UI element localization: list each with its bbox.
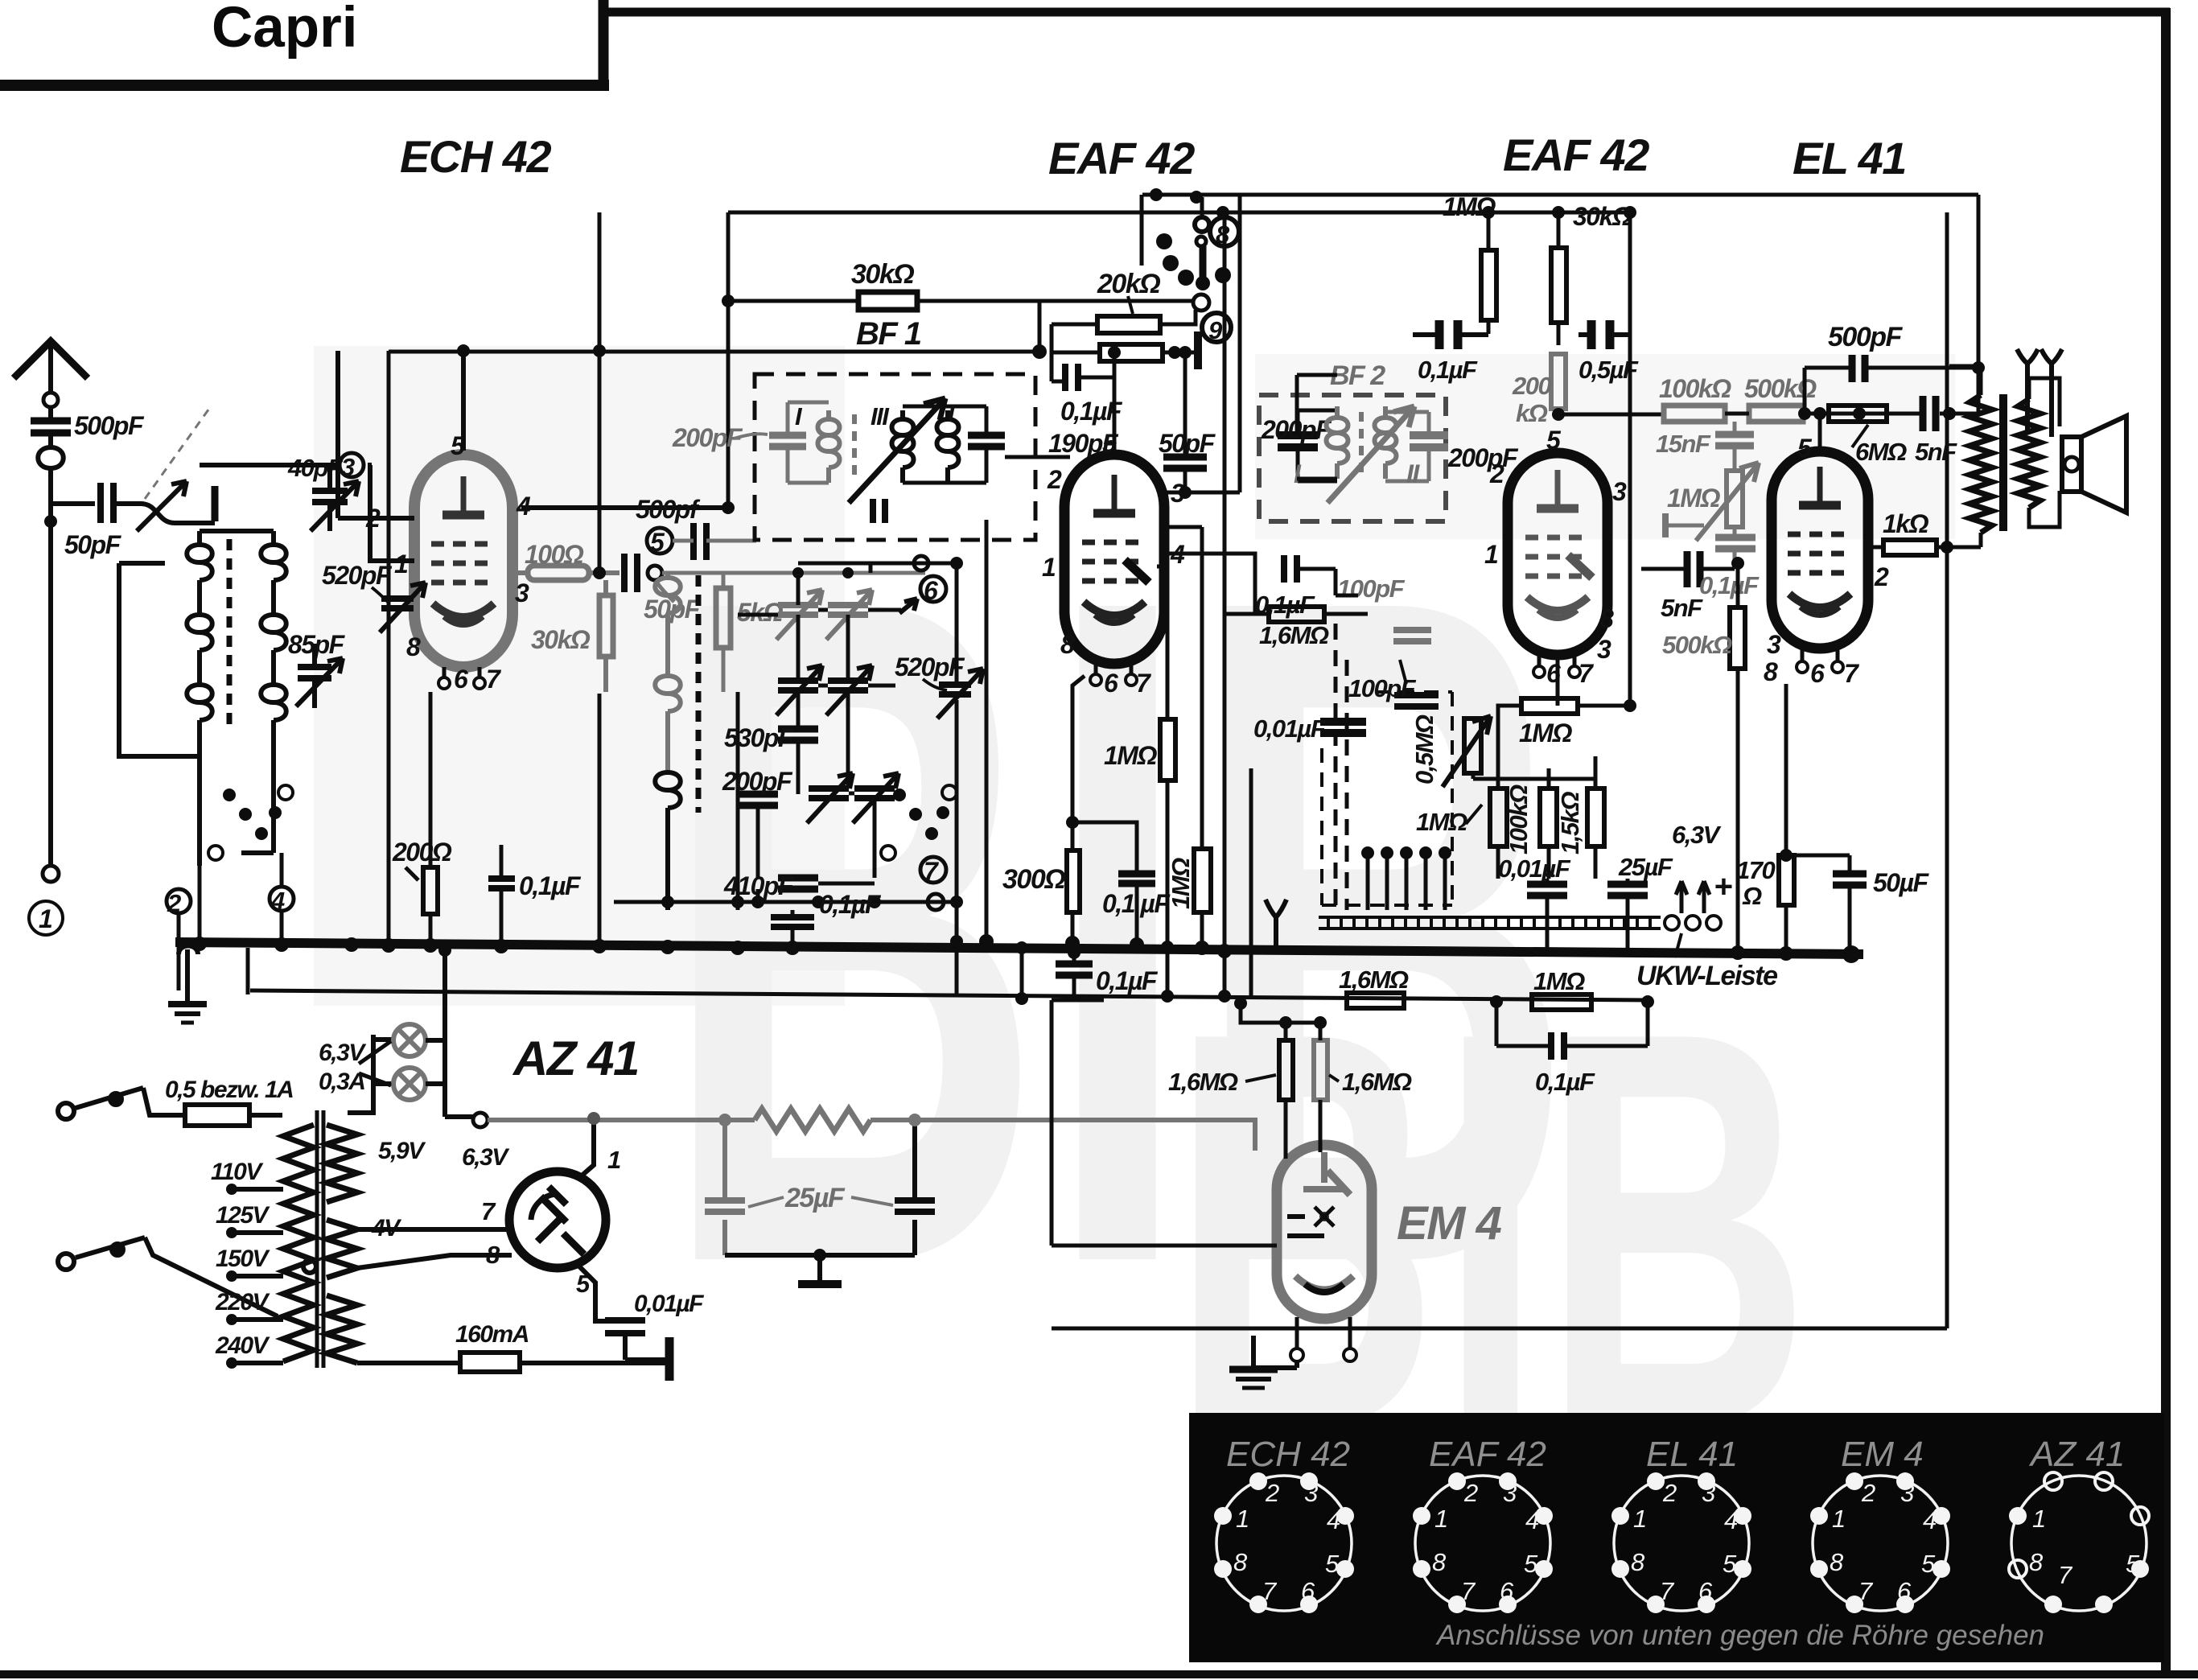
capacitor 15nF bbox=[1715, 434, 1754, 446]
svg-text:8: 8 bbox=[1599, 604, 1614, 633]
resistor 1M grid em4 bbox=[1194, 849, 1211, 912]
resistor 500k grid bbox=[1730, 607, 1745, 669]
svg-text:3: 3 bbox=[1612, 477, 1627, 506]
BF2 secondary cap bbox=[1410, 435, 1448, 447]
long top line lower bbox=[728, 195, 1630, 266]
fuse 160mA bbox=[460, 1353, 520, 1372]
capacitor 50pF grid2 bbox=[624, 554, 637, 592]
resistor 30k screen bbox=[1551, 248, 1566, 323]
socket panel background bbox=[1189, 1413, 2164, 1662]
field resistor zigzag bbox=[755, 1109, 871, 1131]
svg-text:kΩ: kΩ bbox=[1516, 399, 1548, 427]
voltage tap 125V bbox=[232, 1230, 283, 1235]
AZ41 pin1 wire bbox=[581, 1118, 594, 1176]
trimmer row1 a bbox=[778, 605, 818, 615]
potentiometer 1M volume bbox=[1727, 471, 1743, 527]
BF1 tuning arrow bbox=[849, 398, 945, 503]
title box bottom line bbox=[0, 80, 609, 91]
chassis ground hook bbox=[179, 946, 198, 1003]
vertical feed line x745 bbox=[598, 212, 602, 573]
wire pin2 ECH42 bbox=[338, 351, 414, 518]
bus2 left end vertical bbox=[246, 948, 250, 994]
wire BF1 secondary to EAF42 grid bbox=[1005, 455, 1070, 459]
capacitor 0,1uF cathode bbox=[1072, 822, 1137, 945]
capacitor 0,1uF det bbox=[1065, 364, 1078, 391]
svg-text:EM 4: EM 4 bbox=[1397, 1197, 1502, 1250]
coupling capacitor 50pF bbox=[51, 501, 95, 506]
BF1 cap primary gray bbox=[769, 435, 806, 447]
BF1 bottom cap bbox=[873, 499, 885, 523]
svg-text:0,1 µF: 0,1 µF bbox=[1102, 889, 1171, 918]
svg-text:1,6MΩ: 1,6MΩ bbox=[1339, 966, 1409, 994]
svg-text:5nF: 5nF bbox=[1915, 438, 1957, 466]
svg-text:6: 6 bbox=[924, 576, 938, 605]
resistor 1,5k vertical bbox=[1540, 789, 1557, 846]
wire bus1 to bus2 x1270 bbox=[1020, 948, 1024, 999]
BF2 primary cap bbox=[1278, 435, 1318, 447]
resistor 1k bbox=[1883, 540, 1937, 555]
svg-text:6: 6 bbox=[454, 665, 468, 694]
antenna trimmer bbox=[113, 504, 175, 523]
terminal 1 bbox=[43, 866, 59, 882]
pilot lamp 1 bbox=[393, 1024, 426, 1056]
tube AZ41 rectifier bbox=[509, 1171, 606, 1268]
voltage tap 240V bbox=[232, 1361, 283, 1365]
svg-text:4: 4 bbox=[1327, 1506, 1340, 1534]
svg-text:0,01µF: 0,01µF bbox=[1253, 714, 1327, 743]
svg-text:520pF: 520pF bbox=[322, 561, 393, 590]
svg-text:1,5kΩ: 1,5kΩ bbox=[1556, 792, 1584, 854]
EAF42 no1 anode load wire bbox=[1113, 352, 1117, 426]
heater arrows 6,3V bbox=[1676, 881, 1710, 913]
svg-text:160mA: 160mA bbox=[455, 1321, 529, 1348]
svg-text:III: III bbox=[871, 402, 890, 430]
grid wire to ECH42 with terminal 3 bbox=[200, 463, 331, 467]
capacitor 0,01uF out bbox=[1527, 884, 1567, 896]
dial lamp symbols bbox=[2017, 349, 2038, 434]
resistor 1,6M vertical b bbox=[1314, 1040, 1327, 1100]
mains switch lower bbox=[58, 1237, 316, 1316]
band switch contacts left bbox=[223, 789, 282, 840]
capacitor below pot bbox=[1715, 537, 1756, 549]
svg-text:1MΩ: 1MΩ bbox=[1104, 741, 1157, 770]
svg-text:1MΩ: 1MΩ bbox=[1667, 484, 1720, 513]
tube EL41 bbox=[1772, 451, 1868, 673]
resistor 1,6M vertical a bbox=[1279, 1040, 1293, 1100]
capacitor 0,01uF ratio bbox=[1320, 722, 1366, 733]
svg-text:6: 6 bbox=[1301, 1577, 1315, 1605]
svg-text:100kΩ: 100kΩ bbox=[1504, 784, 1533, 854]
svg-text:300Ω: 300Ω bbox=[1002, 864, 1065, 895]
BF2 primary coil bbox=[1327, 406, 1348, 479]
EAF42no2 grid cap 100pF gray bbox=[1393, 630, 1431, 641]
resistor 1M screen top bbox=[1481, 250, 1496, 320]
wire from bus2 down to EM4 bbox=[1052, 1000, 1277, 1246]
svg-text:1MΩ: 1MΩ bbox=[1167, 858, 1195, 909]
electrolytic 25uF right bbox=[725, 1120, 915, 1255]
terminal 2 bbox=[167, 889, 191, 913]
capacitor 0,1uF osc left bbox=[488, 879, 515, 888]
dashed AFC line 2 bbox=[1345, 660, 1349, 910]
svg-text:50µF: 50µF bbox=[1873, 868, 1930, 897]
vertical wire x1555 bbox=[1249, 768, 1253, 996]
trimmer row3 b bbox=[854, 789, 895, 798]
resistor anode vertical bbox=[1587, 789, 1604, 846]
wire heater to lamps bbox=[348, 1035, 393, 1113]
svg-text:200Ω: 200Ω bbox=[392, 838, 452, 867]
svg-text:500kΩ: 500kΩ bbox=[1662, 631, 1732, 659]
osc vertical x917 bbox=[736, 692, 740, 910]
svg-text:1,6MΩ: 1,6MΩ bbox=[1342, 1068, 1412, 1096]
svg-text:30kΩ: 30kΩ bbox=[1573, 202, 1632, 231]
vertical line x1520 bbox=[1164, 195, 1240, 996]
svg-text:ECH 42: ECH 42 bbox=[1226, 1435, 1350, 1474]
svg-text:AZ 41: AZ 41 bbox=[2028, 1435, 2125, 1474]
svg-text:1: 1 bbox=[39, 904, 52, 933]
watermark BTB center bbox=[660, 399, 1575, 1460]
EL41 pin numbers bbox=[1764, 434, 1889, 688]
vertical feed line x905 bbox=[726, 212, 731, 508]
svg-text:6: 6 bbox=[1810, 659, 1825, 688]
terminal 4 bbox=[270, 887, 294, 911]
svg-text:EAF 42: EAF 42 bbox=[1429, 1435, 1546, 1474]
output transformer core bbox=[1999, 394, 2007, 531]
speaker bbox=[2062, 437, 2081, 492]
resistor 30k gray vertical bbox=[599, 595, 613, 657]
svg-text:200: 200 bbox=[1512, 372, 1551, 400]
svg-text:0,5MΩ: 0,5MΩ bbox=[1410, 714, 1439, 784]
band switch contacts right bbox=[893, 789, 949, 840]
svg-text:EM 4: EM 4 bbox=[1841, 1435, 1924, 1474]
svg-text:4: 4 bbox=[270, 887, 285, 915]
transformer primary winding bbox=[283, 1125, 314, 1361]
IF transformer BF1 dashed box bbox=[755, 374, 1035, 540]
wires around detector resistors bbox=[1473, 756, 1595, 879]
UKW-Leiste connector strip bbox=[1319, 917, 1661, 929]
EAF42 no.1 pin numbers bbox=[1042, 429, 1185, 698]
BF2 tuning arrow bbox=[1327, 406, 1414, 503]
resistor 200R vertical bbox=[423, 867, 438, 914]
svg-text:5: 5 bbox=[1546, 426, 1562, 455]
svg-text:9: 9 bbox=[1208, 316, 1223, 344]
terminal 6 bbox=[920, 576, 946, 602]
svg-text:125V: 125V bbox=[216, 1202, 271, 1229]
tube EAF42 no.2 bbox=[1508, 453, 1607, 677]
frame top edge bbox=[607, 8, 2170, 17]
resistor 170R bbox=[1779, 855, 1794, 905]
svg-text:20kΩ: 20kΩ bbox=[1097, 269, 1160, 299]
capacitor 0,1uF lower loop bbox=[1496, 1002, 1648, 1046]
heater line gray with resistor bbox=[488, 1118, 755, 1122]
output transformer secondary bbox=[2018, 399, 2040, 508]
svg-text:5,9V: 5,9V bbox=[378, 1138, 426, 1164]
terminal 5 circled bbox=[647, 528, 673, 554]
ECH42 pin numbers bbox=[365, 431, 531, 694]
svg-text:500pf: 500pf bbox=[636, 495, 701, 524]
long top line upper bbox=[1142, 193, 1978, 197]
svg-text:150V: 150V bbox=[216, 1246, 271, 1272]
top line of ECH42 stage bbox=[389, 350, 1039, 354]
transformer winding 4V bbox=[327, 1220, 357, 1278]
trimmer row2 a bbox=[778, 681, 818, 690]
oscillator coil chain bbox=[655, 573, 681, 772]
svg-text:1MΩ: 1MΩ bbox=[1416, 808, 1467, 836]
svg-text:1: 1 bbox=[1236, 1505, 1249, 1533]
resistor 5k gray bbox=[716, 588, 731, 648]
svg-text:7: 7 bbox=[1262, 1577, 1278, 1605]
svg-text:8: 8 bbox=[406, 632, 421, 661]
svg-text:6: 6 bbox=[1104, 669, 1118, 698]
terminal 8 assembly bbox=[1200, 197, 1204, 218]
svg-text:0,1µF: 0,1µF bbox=[519, 871, 582, 900]
pilot lamp 2 bbox=[393, 1068, 426, 1100]
svg-text:5nF: 5nF bbox=[1661, 594, 1703, 622]
watermark BTB bottom right bbox=[1171, 914, 1811, 1544]
svg-text:5: 5 bbox=[650, 528, 665, 557]
svg-text:0,1µF: 0,1µF bbox=[1096, 966, 1159, 995]
voltage tap 220V bbox=[232, 1317, 283, 1322]
heater terminal 6,3V bbox=[473, 1113, 488, 1127]
svg-text:50pF: 50pF bbox=[64, 530, 122, 559]
osc coil core dashes bbox=[696, 575, 702, 813]
frame bottom edge bbox=[0, 1670, 2198, 1678]
svg-text:100Ω: 100Ω bbox=[525, 540, 584, 569]
capacitor 0,1uF between buses bbox=[1056, 964, 1093, 975]
terminal 7 bbox=[920, 857, 946, 883]
svg-text:0,01µF: 0,01µF bbox=[634, 1291, 704, 1317]
svg-text:8: 8 bbox=[2029, 1548, 2044, 1576]
trimmer row2 b bbox=[828, 681, 868, 690]
svg-text:0,1µF: 0,1µF bbox=[1535, 1068, 1595, 1096]
svg-text:1: 1 bbox=[394, 550, 408, 579]
svg-text:BF 1: BF 1 bbox=[856, 316, 921, 352]
capacitor 500pF osc bbox=[694, 523, 706, 560]
resistor 1,6M lower bbox=[1347, 993, 1404, 1008]
ground at 25uF bbox=[817, 1255, 822, 1281]
vertical rail x2459 bbox=[1977, 195, 1981, 414]
socket panel tube names bbox=[1226, 1435, 2125, 1474]
antenna capacitor 500pF bbox=[48, 407, 53, 418]
tube EAF42 no.1 bbox=[1064, 455, 1164, 686]
svg-text:Ω: Ω bbox=[1742, 882, 1762, 910]
BF2 secondary coil bbox=[1375, 406, 1397, 479]
capacitor 100pF det2 bbox=[1394, 695, 1439, 706]
voltage tap 150V bbox=[232, 1274, 283, 1279]
resistor 1M eaf2 bbox=[1521, 698, 1578, 714]
AZ41 pin5 wire bbox=[578, 1265, 605, 1321]
EM4 heater fork bbox=[1266, 900, 1286, 946]
BF1 core dashes bbox=[852, 414, 857, 479]
svg-text:+: + bbox=[1714, 869, 1732, 904]
svg-text:0,3A: 0,3A bbox=[319, 1069, 364, 1095]
svg-text:15nF: 15nF bbox=[1656, 430, 1711, 458]
svg-text:EL 41: EL 41 bbox=[1793, 133, 1906, 183]
svg-text:0,1µF: 0,1µF bbox=[1699, 571, 1760, 599]
inner box bottom bbox=[1052, 1327, 1947, 1331]
svg-text:1: 1 bbox=[2032, 1505, 2046, 1533]
svg-text:Capri: Capri bbox=[212, 0, 358, 60]
wires EM4 grid bbox=[1286, 1023, 1320, 1159]
dashed AFC line 1 bbox=[1334, 624, 1338, 910]
EL41 cathode wire bbox=[1784, 684, 1788, 855]
capacitor 0,01uF bbox=[605, 1320, 645, 1333]
socket pin dots bbox=[1214, 1472, 1950, 1613]
svg-text:5: 5 bbox=[1325, 1550, 1340, 1578]
trimmer row1 b bbox=[828, 605, 868, 615]
capacitor 50pF det bbox=[1163, 457, 1207, 468]
svg-text:30kΩ: 30kΩ bbox=[851, 259, 914, 290]
svg-text:190pF: 190pF bbox=[1048, 429, 1119, 458]
mains switch upper bbox=[58, 1088, 185, 1119]
AZ41 socket pins (partial) bbox=[2009, 1472, 2149, 1613]
antenna symbol bbox=[14, 341, 88, 378]
resistor 100k bbox=[1664, 406, 1725, 422]
line with 30k resistor bbox=[728, 301, 1193, 352]
svg-text:3: 3 bbox=[1597, 635, 1611, 664]
coil block wires bbox=[119, 531, 274, 866]
resistor 200k bbox=[1551, 354, 1566, 409]
scanner shading patch bbox=[314, 346, 845, 1006]
capacitor 410pF bbox=[778, 878, 818, 889]
anode pin4 wire bbox=[521, 505, 728, 510]
EL41 anode wire bbox=[1818, 414, 1822, 451]
resistor 1M avc bbox=[1160, 719, 1175, 780]
svg-text:UKW-Leiste: UKW-Leiste bbox=[1636, 961, 1777, 991]
svg-text:6,3V: 6,3V bbox=[462, 1144, 510, 1171]
capacitor 25uF kathode bbox=[1607, 884, 1648, 896]
potentiometer 0,5M bbox=[1464, 719, 1481, 773]
svg-text:AZ 41: AZ 41 bbox=[512, 1031, 639, 1085]
BF1 primary coil gray bbox=[818, 410, 840, 483]
svg-text:200pF: 200pF bbox=[672, 423, 743, 452]
svg-text:30kΩ: 30kΩ bbox=[531, 625, 591, 654]
resistor 1M lower bbox=[1532, 994, 1591, 1010]
svg-text:200pF: 200pF bbox=[1447, 443, 1519, 472]
left vertical of ECH42 stage bbox=[387, 351, 391, 945]
capacitor 0,5uF bbox=[1591, 320, 1610, 349]
open terminal below 7 bbox=[928, 894, 944, 910]
svg-text:6MΩ: 6MΩ bbox=[1855, 438, 1907, 466]
frame right edge bbox=[2161, 8, 2171, 1675]
wire H4 into BF2 bbox=[1297, 375, 1337, 479]
svg-text:5: 5 bbox=[1797, 434, 1813, 463]
lamp wires right to bus bbox=[426, 950, 473, 1117]
svg-text:1MΩ: 1MΩ bbox=[1533, 967, 1585, 995]
capacitor 5nF coupling bbox=[1687, 551, 1700, 587]
svg-text:1MΩ: 1MΩ bbox=[1519, 719, 1572, 747]
svg-text:6,3V: 6,3V bbox=[1672, 821, 1722, 849]
voltage tap 110V bbox=[232, 1187, 283, 1192]
svg-text:5: 5 bbox=[2126, 1550, 2140, 1578]
EAF42 no1 cathode down bbox=[1072, 676, 1085, 850]
tube ECH42 bbox=[414, 455, 512, 689]
AZ41 pin numbers bbox=[481, 1146, 620, 1298]
resistor 100R bbox=[512, 570, 619, 575]
svg-text:8: 8 bbox=[1060, 630, 1075, 659]
svg-text:1: 1 bbox=[1042, 553, 1056, 582]
coil core dashes A bbox=[227, 539, 233, 724]
svg-text:0,1µF: 0,1µF bbox=[1418, 356, 1478, 384]
svg-text:1kΩ: 1kΩ bbox=[1883, 509, 1929, 538]
svg-text:1: 1 bbox=[1484, 540, 1498, 569]
tube EM4 magic eye bbox=[1277, 1145, 1372, 1361]
junction dots on bus left bbox=[192, 937, 800, 955]
EM4 ground bbox=[1253, 1336, 1297, 1368]
fuse 0,5 bezw 1A bbox=[185, 1105, 249, 1126]
RF coil column A bbox=[187, 531, 212, 756]
svg-text:EL 41: EL 41 bbox=[1646, 1435, 1738, 1474]
resistor 30k AVC bbox=[858, 292, 917, 310]
resistor 500k bbox=[1749, 406, 1803, 422]
capacitor 530pF bbox=[778, 729, 818, 740]
svg-text:2: 2 bbox=[1265, 1479, 1279, 1507]
svg-text:3: 3 bbox=[1767, 630, 1781, 659]
trimmer row3 a bbox=[809, 789, 849, 798]
svg-text:100kΩ: 100kΩ bbox=[1659, 374, 1731, 403]
svg-text:3: 3 bbox=[1304, 1479, 1318, 1507]
ground bar at 0,01uF bbox=[665, 1337, 674, 1381]
wires at x745 down bbox=[598, 694, 602, 946]
connector pins cluster bbox=[1368, 857, 1445, 910]
capacitor 0,1uF agc bbox=[1284, 555, 1297, 583]
EAF42 no.2 pin numbers bbox=[1484, 426, 1627, 688]
svg-text:ECH 42: ECH 42 bbox=[400, 131, 551, 182]
svg-text:220V: 220V bbox=[215, 1289, 271, 1316]
pin5 wire ECH42 bbox=[461, 351, 466, 451]
capacitor 200pF osc bbox=[738, 794, 778, 805]
svg-text:8: 8 bbox=[1233, 1548, 1248, 1576]
dashed detector module box bbox=[1322, 692, 1452, 905]
resistor 1,6M horizontal bbox=[1269, 607, 1324, 622]
svg-text:200pF: 200pF bbox=[722, 767, 793, 796]
oscillator block bottom line bbox=[614, 900, 957, 904]
svg-text:Anschlüsse von unten gegen die: Anschlüsse von unten gegen die Röhre ges… bbox=[1435, 1620, 2044, 1651]
svg-text:1,6MΩ: 1,6MΩ bbox=[1259, 621, 1329, 649]
EAF42 no1 pin4 wire bbox=[1164, 554, 1255, 614]
svg-text:500pF: 500pF bbox=[1828, 322, 1903, 352]
svg-text:BF 2: BF 2 bbox=[1330, 360, 1385, 391]
svg-text:0,01µF: 0,01µF bbox=[1498, 854, 1571, 883]
svg-text:100pF: 100pF bbox=[1337, 574, 1406, 603]
svg-text:500pF: 500pF bbox=[74, 411, 145, 440]
resistor 6M bbox=[1829, 406, 1887, 422]
RF coil column B bbox=[261, 531, 286, 853]
svg-text:25µF: 25µF bbox=[784, 1183, 846, 1213]
transformer core bbox=[317, 1110, 323, 1368]
B+ vertical x2026 bbox=[1628, 212, 1632, 706]
resistor 100k vertical bbox=[1490, 789, 1507, 846]
svg-text:2: 2 bbox=[167, 889, 181, 917]
svg-text:0,5 bezw. 1A: 0,5 bezw. 1A bbox=[165, 1077, 293, 1103]
BF1 secondary cap bbox=[968, 435, 1005, 447]
svg-text:3: 3 bbox=[515, 579, 529, 607]
svg-text:7: 7 bbox=[2058, 1561, 2073, 1589]
svg-text:8: 8 bbox=[1764, 657, 1778, 686]
svg-text:0,1µF: 0,1µF bbox=[819, 890, 882, 919]
inner box right vertical bbox=[1945, 212, 1949, 1328]
resistor 300R bbox=[1067, 850, 1080, 912]
secondary bus line bbox=[250, 990, 1648, 1000]
svg-text:25µF: 25µF bbox=[1618, 853, 1673, 881]
BF1 secondary return to bus bbox=[985, 520, 989, 941]
svg-text:1: 1 bbox=[607, 1146, 620, 1174]
transformer wires bbox=[1949, 366, 2060, 547]
svg-text:EAF 42: EAF 42 bbox=[1048, 133, 1195, 183]
IF transformer BF2 dashed box bbox=[1259, 395, 1446, 521]
svg-text:530pF: 530pF bbox=[724, 723, 795, 752]
main ground bus bbox=[175, 942, 1863, 954]
svg-text:110V: 110V bbox=[211, 1159, 264, 1185]
